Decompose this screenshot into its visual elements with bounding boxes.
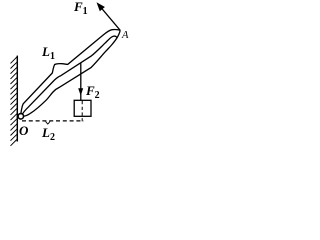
F1 arrowhead xyxy=(97,2,105,11)
string to weight xyxy=(80,63,82,100)
label L2 xyxy=(42,126,55,143)
label L1 xyxy=(42,45,55,62)
beam front (bottom) edge with nose xyxy=(23,30,120,116)
label F2 xyxy=(86,84,100,101)
wall line xyxy=(16,56,18,142)
wall hatching xyxy=(11,57,18,146)
F2 arrowhead xyxy=(78,88,83,96)
label O (pivot node) xyxy=(19,124,28,137)
beam mid edge xyxy=(22,36,117,114)
F1 arrow shaft xyxy=(100,6,121,31)
tick on dashed line xyxy=(46,122,50,125)
dashed vertical centerline xyxy=(81,101,83,122)
label F1 xyxy=(74,0,88,16)
dashed horizontal L2 line xyxy=(22,120,84,122)
weight box xyxy=(74,100,91,116)
label A (node A) xyxy=(122,31,128,42)
pivot circle xyxy=(18,114,24,120)
beam back (top) edge xyxy=(21,30,120,114)
